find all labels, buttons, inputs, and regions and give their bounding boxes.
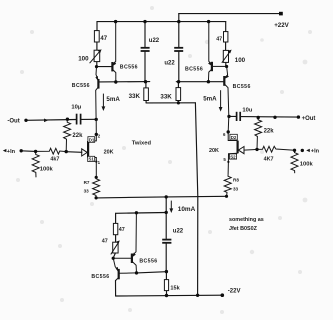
capacitor C4 10u	[237, 112, 241, 121]
terminal square +22V	[279, 12, 283, 16]
trimmer VR1 100	[90, 49, 102, 63]
terminal dot -22V	[221, 293, 225, 297]
svg-text:5mA: 5mA	[106, 96, 120, 103]
svg-text:10u: 10u	[242, 108, 252, 114]
svg-text:Jfet B0S0Z: Jfet B0S0Z	[229, 226, 258, 232]
svg-text:47: 47	[100, 36, 107, 42]
signal arrow on -Out wire	[44, 119, 48, 123]
svg-text:+In: +In	[311, 149, 320, 155]
wire: gate wire right	[244, 148, 257, 151]
pin box S1	[88, 156, 95, 161]
junction dots y82 buses	[114, 80, 117, 83]
jfet J2 bottom wire	[228, 153, 238, 175]
jfet J1 20K	[88, 119, 96, 177]
node B dot	[225, 65, 228, 68]
capacitor C2 u22	[174, 48, 183, 51]
svg-text:u22: u22	[164, 61, 175, 67]
junction dots right input	[255, 148, 258, 151]
annotation arrow 5mA right	[219, 90, 223, 111]
svg-text:33: 33	[84, 188, 90, 193]
capacitor C1 u22	[141, 48, 150, 51]
edge arrow +In left	[3, 149, 7, 152]
svg-text:D1: D1	[89, 137, 95, 142]
junction dots +22V rail	[114, 20, 117, 23]
wire: C2 bottom to right y82 bus	[178, 51, 180, 81]
junction dots left input	[34, 150, 37, 153]
node A dot	[95, 65, 98, 68]
resistor R3 33K	[144, 88, 149, 101]
junction dots -22V rail	[165, 294, 168, 297]
wire: Q5 collector node to tail cap node	[137, 272, 167, 273]
svg-text:+Out: +Out	[302, 116, 316, 122]
svg-text:100: 100	[78, 55, 89, 62]
resistor R7 33 zigzag	[93, 177, 100, 198]
svg-text:100: 100	[235, 57, 246, 64]
svg-text:BC556: BC556	[185, 67, 203, 73]
svg-text:47: 47	[102, 238, 108, 244]
svg-text:BC556: BC556	[91, 274, 109, 280]
svg-text:u22: u22	[173, 228, 184, 234]
svg-text:u22: u22	[149, 38, 160, 44]
edge arrow +In right	[306, 149, 310, 152]
svg-text:BC556: BC556	[139, 259, 157, 265]
wire: gate wire left	[66, 151, 82, 154]
wire: C2 drop from rail	[178, 22, 180, 47]
svg-text:+In: +In	[7, 149, 16, 155]
jfet J2 triangle	[238, 147, 244, 154]
pin box D1	[88, 137, 95, 143]
wire: right chain from rail to R2	[225, 22, 227, 32]
resistor R2 47	[224, 32, 228, 42]
wire: bus vertical to -22V rail	[195, 103, 197, 295]
resistor R14 15k	[164, 280, 168, 291]
svg-text:15k: 15k	[170, 285, 180, 291]
svg-text:S2: S2	[230, 154, 236, 159]
svg-text:R7: R7	[84, 180, 90, 185]
wire: CCS chain verticals	[113, 213, 115, 257]
transistor Q6 BC556	[113, 259, 136, 281]
wire: +In left to junction	[21, 150, 35, 153]
svg-text:S1: S1	[89, 157, 95, 162]
wire: -22V bottom rail	[116, 294, 223, 297]
pin box D2	[230, 134, 237, 140]
wire: CCS top line	[116, 212, 167, 215]
resistor R13 47	[113, 223, 117, 234]
transistor Q3 BC556	[208, 22, 227, 82]
junction dots +Out line	[227, 115, 230, 118]
junction dot 33K bus	[177, 101, 180, 104]
wire: +22V stub rail	[179, 13, 281, 15]
svg-text:100k: 100k	[300, 162, 314, 168]
svg-text:BC556: BC556	[233, 84, 251, 90]
wire: 33K bottom bus horizontal	[146, 102, 195, 104]
wire: tail line	[96, 196, 226, 198]
svg-text:BC556: BC556	[72, 83, 90, 89]
resistor R4 33K	[176, 88, 181, 101]
svg-text:20K: 20K	[209, 148, 219, 154]
svg-text:+22V: +22V	[274, 22, 289, 29]
terminal dot +In right	[301, 149, 304, 152]
transistor Q4 BC556	[224, 67, 229, 132]
svg-text:47: 47	[119, 227, 125, 233]
resistor R12 100k zigzag	[291, 150, 298, 173]
wire: Q6 collector to bottom rail	[115, 281, 117, 297]
resistor R11 100k zigzag	[32, 151, 39, 177]
wire: R1 to VR1	[96, 42, 98, 50]
svg-text:something as: something as	[229, 217, 264, 223]
jfet J2 20K	[228, 132, 237, 153]
wire: C1 drop from rail	[144, 22, 146, 47]
transistor Q5 BC556	[113, 213, 136, 273]
terminal dot +In left	[20, 149, 23, 152]
wire: -Out line to C3	[26, 119, 76, 122]
trimmer VR3 47	[111, 240, 120, 254]
resistor R1 47	[94, 31, 99, 42]
svg-text:D2: D2	[231, 135, 237, 140]
jfet J1 triangle	[82, 149, 88, 156]
svg-text:100k: 100k	[40, 166, 54, 172]
junction dots R7	[95, 176, 98, 179]
wire: C4 to +Out terminal	[241, 116, 299, 119]
wire: 15k stubs	[165, 272, 167, 296]
svg-text:Twixed: Twixed	[132, 141, 152, 147]
annotation arrow 5mA left	[102, 94, 106, 111]
junction dots CCS	[135, 211, 138, 214]
wire: +22V main rail	[97, 21, 226, 23]
wire: 33K R3 stubs	[145, 82, 147, 103]
resistor R6 4k7 zigzag	[36, 148, 67, 154]
capacitor C3 10u	[77, 114, 81, 125]
svg-text:33K: 33K	[129, 93, 141, 100]
resistor R5 22k zigzag	[64, 119, 71, 151]
junction dot J2 drain	[227, 130, 230, 133]
wire: left collector bus y82	[98, 81, 149, 83]
resistor R9 22k zigzag	[255, 118, 262, 150]
wire: C3 to node D1 drop	[81, 118, 96, 120]
svg-text:33K: 33K	[160, 93, 172, 100]
wire: left chain from rail to R1	[96, 22, 98, 31]
resistor R10 4K7 zigzag	[257, 146, 295, 152]
svg-text:33: 33	[233, 186, 239, 191]
wire: node A to Q1 base	[97, 66, 113, 68]
svg-text:4K7: 4K7	[264, 157, 274, 163]
capacitor C5 u22	[162, 240, 171, 243]
wire: C1 bottom to y82 bus	[144, 51, 146, 81]
svg-text:4k7: 4k7	[50, 157, 59, 163]
svg-text:47: 47	[216, 37, 222, 43]
resistor R8 33 zigzag	[224, 175, 231, 197]
svg-text:22k: 22k	[72, 133, 83, 139]
terminal dot -Out	[24, 119, 27, 122]
pin box S2	[229, 154, 236, 159]
transistor Q2 BC556	[95, 67, 98, 120]
svg-text:10µ: 10µ	[71, 104, 81, 110]
wire: right collector bus y82	[176, 81, 224, 83]
svg-text:22k: 22k	[264, 128, 275, 134]
junction dots tail	[225, 195, 228, 198]
wire: riser to +22V stub rail	[178, 14, 180, 22]
svg-text:-Out: -Out	[7, 119, 19, 125]
annotation arrow 10mA	[169, 201, 173, 213]
wire: tail vertical to CCS	[165, 197, 167, 272]
svg-text:R8: R8	[233, 177, 239, 182]
svg-text:10mA: 10mA	[178, 206, 196, 213]
transistor Q1 BC556	[112, 22, 116, 82]
junction dot J1 drain	[95, 133, 98, 136]
wire: R2 to VR2	[225, 42, 227, 50]
wire: 33K R4 stubs	[177, 82, 179, 103]
svg-text:5mA: 5mA	[203, 96, 217, 103]
svg-text:20K: 20K	[104, 150, 114, 156]
wire: VR2 to node B	[225, 62, 227, 66]
wire: +Out line from Q4 node to C4	[229, 115, 236, 117]
wire: VR1 to node A	[96, 62, 98, 67]
terminal dot +Out	[297, 115, 300, 118]
svg-text:-22V: -22V	[228, 288, 241, 294]
svg-text:BC556: BC556	[120, 64, 138, 70]
trimmer VR2 100	[222, 50, 232, 63]
